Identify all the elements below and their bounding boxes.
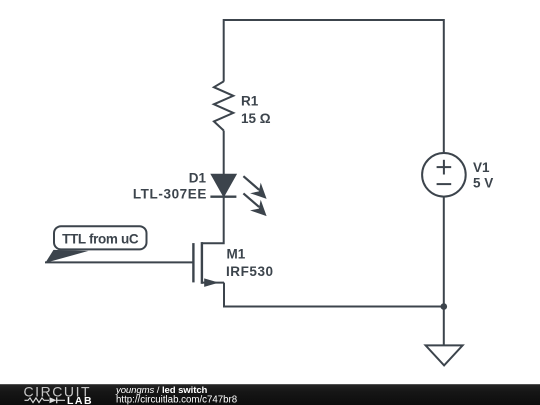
voltage source V1	[422, 153, 466, 197]
svg-text:V1: V1	[473, 160, 490, 175]
svg-text:TTL from uC: TTL from uC	[62, 231, 139, 246]
logo squiggle resistor	[25, 398, 50, 403]
flag TTL from uC	[45, 226, 146, 263]
LED D1	[210, 175, 236, 197]
svg-text:http://circuitlab.com/c747br8: http://circuitlab.com/c747br8	[116, 395, 237, 405]
transistor M1	[193, 242, 224, 287]
wire LED to MOSFET drain	[202, 197, 224, 244]
wire source to bottom node	[224, 283, 444, 307]
svg-text:D1: D1	[189, 171, 207, 186]
wire V1 bottom to ground	[443, 197, 445, 346]
svg-text:LTL-307EE: LTL-307EE	[133, 186, 207, 201]
svg-text:15 Ω: 15 Ω	[241, 111, 271, 126]
wire top horizontal	[224, 20, 444, 153]
svg-text:5 V: 5 V	[473, 176, 493, 191]
svg-text:M1: M1	[227, 247, 246, 262]
node junction dot	[441, 303, 448, 310]
wire gate	[45, 261, 193, 263]
resistor R1	[214, 81, 233, 130]
ground	[426, 345, 463, 365]
LED light arrow 2	[243, 193, 266, 216]
LED light arrow 1	[243, 176, 266, 199]
svg-text:IRF530: IRF530	[226, 264, 274, 279]
logo diode	[50, 397, 66, 403]
footer bar	[0, 384, 540, 405]
svg-text:LAB: LAB	[67, 395, 93, 405]
wire resistor to LED	[223, 131, 225, 176]
svg-text:R1: R1	[241, 94, 259, 109]
